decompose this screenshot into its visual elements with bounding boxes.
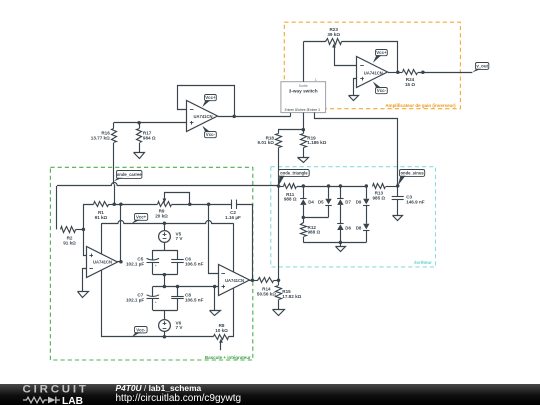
wire node to R18 top	[279, 130, 304, 134]
node junction R12 top	[302, 216, 306, 220]
svg-text:15 Ω: 15 Ω	[405, 82, 415, 87]
svg-text:146.9 nF: 146.9 nF	[406, 200, 425, 205]
wire onde_carree vertical (R16 bottom to R1 node)	[113, 143, 115, 184]
svg-text:Vcc-: Vcc-	[136, 327, 146, 332]
node junction D5 top	[327, 184, 331, 188]
wire U1 minus input to ground	[83, 269, 87, 292]
wire C2 right corner down to U2 output	[237, 205, 253, 281]
svg-text:UA741CN: UA741CN	[364, 70, 383, 75]
svg-text:UA741CN: UA741CN	[193, 114, 212, 119]
wire down to plus input of U1	[84, 230, 87, 256]
node junction feedback vertical	[119, 203, 123, 207]
resistor R9 potentiometer 20k	[158, 202, 172, 207]
diode D5 (down)	[328, 186, 330, 199]
svg-text:985 Ω: 985 Ω	[372, 196, 385, 201]
node junction D4 top	[302, 184, 306, 188]
resistor R17 984	[139, 123, 141, 128]
wire switch Entree 2 down to node	[303, 113, 305, 130]
flag Vcc- for U3	[205, 132, 217, 138]
diode D4 (up)	[303, 186, 305, 198]
ground below C3	[397, 215, 399, 217]
svg-text:102.1 µF: 102.1 µF	[126, 298, 144, 303]
svg-text:D4: D4	[308, 200, 314, 205]
region box: Amplificateur de gain inverseur (orange dashed)	[284, 22, 460, 109]
svg-text:Vcc+: Vcc+	[136, 215, 147, 220]
Vcc+ rail with hops over feedback and minus-input verticals	[102, 221, 234, 224]
resistor R18 9.01k	[276, 134, 282, 148]
svg-text:7 V: 7 V	[176, 236, 184, 241]
flag Vcc+ for U1	[135, 214, 148, 221]
svg-text:écrêteur: écrêteur	[414, 260, 432, 265]
svg-text:D8: D8	[356, 225, 362, 230]
wire R11 to diode ladder top rail	[297, 186, 366, 188]
node junction C7/C8 top right	[176, 285, 180, 289]
wire U3 output	[218, 116, 291, 118]
R8 wiper arrow (dangling)	[219, 338, 223, 342]
svg-text:D7: D7	[345, 200, 351, 205]
svg-text:Amplificateur de gain (inverse: Amplificateur de gain (inverseur)	[385, 103, 456, 108]
svg-text:91 kΩ: 91 kΩ	[63, 241, 76, 246]
node junction minus-input vertical on R9/C2 wire	[207, 203, 211, 207]
wire divider node up to onde_triangle node	[278, 186, 280, 280]
svg-text:+: +	[155, 300, 157, 304]
resistor R8 potentiometer 10k on Vcc- rail	[214, 335, 229, 340]
diode D9 (down)	[366, 186, 368, 199]
footer bar	[0, 384, 540, 405]
node junction onde_carree column / R1	[112, 203, 116, 207]
C5/C6 bottom rail	[153, 274, 178, 276]
wire onde_triangle node to R11	[279, 186, 284, 188]
svg-text:Vcc+: Vcc+	[376, 50, 387, 55]
svg-text:onde_triangle: onde_triangle	[280, 171, 308, 176]
wire U2 output to R14	[252, 280, 257, 282]
svg-text:13.77 kΩ: 13.77 kΩ	[91, 136, 110, 141]
node junction U3 output / feedback	[232, 115, 236, 119]
diode D6 (up)	[337, 223, 343, 225]
wire U1 output stub	[117, 261, 121, 263]
diode D8 (down)	[363, 224, 369, 230]
node junction R9 loop	[188, 203, 192, 207]
svg-text:50.56 kΩ: 50.56 kΩ	[257, 292, 276, 297]
capacitor C8 106.5 nF branch	[177, 287, 179, 297]
svg-text:10 kΩ: 10 kΩ	[215, 328, 228, 333]
region box: ecreteur (cyan dashed)	[271, 167, 436, 267]
ground below R15	[278, 300, 280, 310]
wire R18 bottom to onde_triangle node	[278, 148, 280, 186]
svg-text:988 Ω: 988 Ω	[284, 197, 297, 202]
svg-text:UA741CN: UA741CN	[225, 278, 244, 283]
svg-text:1.16 µF: 1.16 µF	[225, 215, 241, 220]
wire R16 top to U3 plus input	[114, 122, 187, 124]
capacitor C3 146.9 nF	[397, 186, 399, 197]
resistor R15 17.82k	[278, 280, 280, 285]
wire U2 output to C2 junction	[249, 280, 252, 282]
flag onde_carree	[117, 171, 142, 179]
CircuitLab logo	[23, 384, 89, 396]
ground at U4 plus input	[353, 95, 355, 97]
flag Vcc- for U1 rail	[135, 327, 148, 333]
wire C7/C8 bottom to V6	[164, 310, 166, 319]
resistor R19 1.186k	[303, 130, 305, 134]
wire R14 to divider node	[274, 280, 279, 282]
svg-text:Vcc+: Vcc+	[205, 95, 216, 100]
resistor R14 50.56k	[258, 278, 274, 283]
flag Vcc+ for U3	[205, 95, 217, 101]
resistor R2	[61, 227, 76, 233]
svg-text:1: 1	[315, 78, 317, 82]
svg-text:+: +	[155, 264, 157, 268]
svg-text:984 Ω: 984 Ω	[143, 136, 156, 141]
resistor R12 988	[303, 217, 305, 223]
node junction C pair middle bottom	[163, 285, 167, 289]
svg-text:onde_sinus: onde_sinus	[400, 171, 424, 176]
resistor R1	[94, 202, 109, 207]
wire D4/D5 bottoms join	[303, 217, 328, 219]
svg-text:39 kΩ: 39 kΩ	[327, 32, 340, 37]
resistor R24 15 ohm	[403, 70, 418, 75]
node junction ladder ground	[339, 241, 343, 245]
R9 wiper arrow and loop to right terminal	[163, 199, 167, 203]
wire plus input rail from C pair to U2	[178, 286, 219, 288]
node junction after R24	[421, 70, 425, 74]
op-amp U3 UA741CN (follower)	[187, 101, 218, 132]
C7/C8 bottom rail	[153, 310, 178, 312]
svg-text:9.01 kΩ: 9.01 kΩ	[258, 140, 275, 145]
wire U3 output up to switch Entree 1	[290, 113, 292, 117]
wire R1 node to R9	[114, 204, 157, 206]
svg-text:3-way switch: 3-way switch	[289, 89, 318, 94]
R23 wiper arrow and wire down to U4 minus input	[332, 43, 336, 47]
svg-text:988 Ω: 988 Ω	[308, 230, 321, 235]
svg-text:Entree 2: Entree 2	[296, 108, 308, 112]
ground below R19	[303, 148, 305, 158]
wire U1 V+ pin up to Vcc rail	[101, 223, 103, 254]
svg-text:106.5 nF: 106.5 nF	[185, 261, 204, 266]
wire V5 top	[164, 223, 166, 230]
wire R13 right to onde_sinus node	[386, 186, 398, 188]
flag v_out	[476, 63, 489, 70]
wire sortie to R23 left	[304, 41, 326, 43]
svg-text:Entree 1: Entree 1	[285, 108, 297, 112]
capacitor C6 106.5 nF branch	[177, 250, 179, 260]
op-amp U1 UA741CN (schmitt trigger)	[87, 247, 118, 278]
node junction Entree2/R18/R19	[302, 128, 306, 132]
flag onde_sinus	[400, 170, 425, 177]
wire U4 plus input to ground	[354, 79, 357, 96]
svg-text:Bascule + intégrateur: Bascule + intégrateur	[205, 355, 251, 360]
capacitor C7 102.1 uF branch	[152, 287, 154, 297]
svg-text:Vcc-: Vcc-	[206, 132, 216, 137]
node junction D7 top	[339, 184, 343, 188]
svg-text:17.82 kΩ: 17.82 kΩ	[282, 294, 301, 299]
node junction R17 top	[137, 121, 141, 125]
footer title text	[116, 384, 242, 403]
wire V6 bottom to Vcc- rail	[164, 331, 166, 337]
svg-text:Sortie: Sortie	[299, 84, 308, 88]
capacitor C5 102.1 uF branch	[152, 250, 154, 260]
3-way switch SW1 box	[281, 82, 326, 113]
diode D7 (up)	[340, 186, 342, 198]
node junction onde_triangle	[277, 184, 281, 188]
Vcc- rail left segment from U1 V- pin	[102, 270, 214, 337]
ground at U1 minus input	[82, 291, 84, 293]
wire R23 right to output feedback corner	[342, 42, 398, 73]
svg-text:D6: D6	[345, 225, 351, 230]
node junction R1/R2/plus-input	[82, 228, 86, 232]
node junction U4 output feedback	[396, 70, 400, 74]
svg-text:LAB: LAB	[62, 396, 83, 405]
wire onde_triangle feedback rail (y=185.9) with hop over onde_carree vertical	[57, 183, 279, 186]
svg-text:Entree 3: Entree 3	[308, 108, 320, 112]
flag onde_triangle	[279, 170, 310, 177]
op-amp U2 UA741CN (integrator)	[219, 265, 250, 296]
node junction R14/R15/onde_triangle column	[277, 278, 281, 282]
node junction U1 output	[119, 260, 123, 264]
wire switch sortie up to R23 wire	[303, 41, 305, 81]
svg-text:106.5 nF: 106.5 nF	[185, 298, 204, 303]
wire R9 right to C2	[172, 204, 232, 206]
wire U4 output	[388, 72, 402, 74]
node junction D9 top	[365, 184, 369, 188]
ladder bottom rail	[303, 242, 366, 244]
wire R1 left corner down	[84, 205, 94, 230]
flag Vcc+ for U4	[376, 50, 388, 56]
C7/C8 top rail	[153, 286, 178, 288]
svg-text:1.186 kΩ: 1.186 kΩ	[307, 140, 326, 145]
svg-text:91 kΩ: 91 kΩ	[95, 215, 108, 220]
voltage source V6 7V	[159, 320, 171, 332]
wire minus input vertical from R9/C2 node	[209, 205, 219, 274]
wire R1 right to node	[108, 204, 114, 206]
wire switch Entree 3 right and down to onde_sinus	[315, 113, 398, 186]
node junction U2 output / C2	[251, 278, 255, 282]
svg-text:Vcc-: Vcc-	[377, 88, 387, 93]
wire R12 bottom to ladder bottom rail	[303, 237, 305, 242]
svg-text:D9: D9	[356, 200, 362, 205]
wire Vcc+ rail right corner down to U2 V+ pin	[233, 223, 235, 272]
voltage source V5 7V	[159, 231, 171, 243]
node junction V6 on Vcc- rail	[163, 335, 167, 339]
ground below diode ladder	[340, 242, 342, 246]
region box: Bascule + integrateur (green dashed)	[50, 167, 252, 360]
resistor R23 potentiometer 39k	[326, 39, 342, 45]
svg-text:7 V: 7 V	[176, 325, 184, 330]
resistor R13 985	[373, 184, 386, 189]
svg-text:20 kΩ: 20 kΩ	[155, 213, 168, 218]
op-amp U4 UA741CN (gain amp)	[357, 57, 388, 88]
wire left drop to R2	[56, 186, 58, 230]
svg-text:D5: D5	[318, 200, 324, 205]
flag Vcc- for U4	[376, 88, 388, 94]
wire between capacitor pairs	[164, 275, 166, 287]
ground below R17	[139, 143, 141, 153]
wire R2 right to plus-input node	[76, 229, 84, 231]
follower feedback rectangle wire	[178, 86, 235, 117]
svg-text:v_out: v_out	[476, 64, 488, 69]
wire feedback vertical from R1 node down to U1 output	[120, 204, 122, 261]
svg-text:UA741CN: UA741CN	[93, 259, 112, 264]
svg-text:102.1 µF: 102.1 µF	[126, 261, 144, 266]
wire V5 bottom to C5/C6 top rail	[164, 242, 166, 250]
node junction V5 top on Vcc+ rail	[163, 221, 167, 225]
wire R8 right up to U2 V- pin	[229, 288, 234, 337]
node junction onde_sinus	[396, 184, 400, 188]
C5/C6 top rail	[153, 250, 178, 252]
wire R24 to v_out	[418, 72, 473, 74]
svg-text:onde_carree: onde_carree	[117, 172, 143, 177]
ground on U2 plus input	[214, 287, 216, 311]
node junction C pair middle top	[163, 273, 167, 277]
resistor R11 988	[284, 184, 297, 189]
node junction ground stub on plus input	[213, 285, 217, 289]
resistor R16 13.77k	[113, 123, 115, 129]
capacitor C2 1.16 uF	[231, 200, 233, 209]
